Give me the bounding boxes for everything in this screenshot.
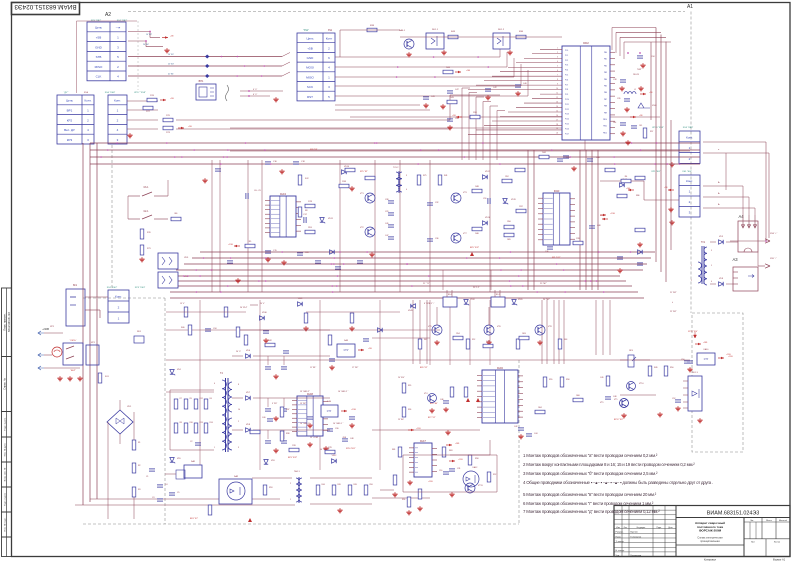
- svg-text:24 "К14": 24 "К14": [398, 377, 405, 379]
- svg-text:3: 3: [406, 175, 407, 177]
- svg-text:принципиальная: принципиальная: [700, 540, 720, 543]
- svg-text:DA6: DA6: [497, 366, 503, 370]
- svg-text:Вкл. ДУ: Вкл. ДУ: [64, 128, 75, 132]
- svg-text:ХР15 "К10": ХР15 "К10": [688, 331, 698, 333]
- svg-text:С38: С38: [385, 199, 388, 201]
- svg-text:R46: R46: [475, 233, 478, 235]
- svg-text:4 "б": 4 "б": [253, 89, 258, 91]
- svg-text:ХS2 "ХS2": ХS2 "ХS2": [107, 287, 118, 289]
- svg-text:"ВКЛ": "ВКЛ": [70, 370, 76, 372]
- svg-text:R6: R6: [625, 176, 627, 178]
- svg-text:24 "К14": 24 "К14": [240, 307, 248, 309]
- svg-text:PC2: PC2: [565, 60, 568, 62]
- svg-text:R63: R63: [522, 333, 525, 335]
- svg-text:16 "GND 2 ": 16 "GND 2 ": [338, 391, 349, 393]
- svg-text:+15В: +15В: [726, 354, 731, 356]
- svg-text:А3: А3: [732, 257, 738, 262]
- svg-text:+5В1: +5В1: [703, 342, 707, 344]
- svg-text:PB12: PB12: [603, 132, 607, 134]
- svg-text:ТА1.1: ТА1.1: [294, 470, 301, 473]
- svg-text:17: 17: [556, 119, 558, 121]
- svg-text:L1: L1: [634, 89, 636, 91]
- svg-text:21 "М2": 21 "М2": [670, 292, 677, 294]
- svg-text:R44: R44: [322, 484, 325, 486]
- svg-text:3: 3: [238, 447, 239, 449]
- svg-text:VD17: VD17: [485, 171, 491, 173]
- svg-text:R52: R52: [472, 339, 475, 341]
- svg-text:PC1: PC1: [565, 55, 568, 57]
- svg-text:R35: R35: [408, 385, 411, 387]
- svg-text:ВН1: ВН1: [199, 80, 204, 83]
- svg-text:SCK: SCK: [307, 85, 313, 89]
- svg-text:GND: GND: [95, 45, 103, 49]
- svg-text:М1: М1: [73, 283, 77, 287]
- svg-text:R61: R61: [392, 449, 395, 451]
- svg-text:С34: С34: [651, 56, 654, 58]
- svg-text:3 Монтаж проводов обозначенны: 3 Монтаж проводов обозначенных "б" вести…: [523, 471, 658, 476]
- svg-text:А2: А2: [105, 12, 111, 18]
- svg-text:RР4: RР4: [629, 350, 633, 352]
- svg-text:4 Общие проводники обозначенн: 4 Общие проводники обозначенные ▪ ‒▴‒ ▪ …: [523, 480, 713, 485]
- svg-text:17 "В2": 17 "В2": [352, 367, 359, 369]
- svg-text:ХS1 "Ш1": ХS1 "Ш1": [682, 171, 692, 173]
- svg-text:25 "М7": 25 "М7": [540, 283, 547, 285]
- svg-text:Бучнев: Бучнев: [631, 532, 639, 534]
- svg-text:26 "Б5": 26 "Б5": [168, 54, 174, 56]
- svg-text:R8: R8: [180, 422, 182, 424]
- svg-text:R8: R8: [305, 210, 307, 212]
- svg-text:+5В: +5В: [466, 70, 470, 72]
- svg-text:+5В: +5В: [96, 35, 101, 39]
- svg-text:PC14: PC14: [565, 119, 569, 121]
- svg-text:+15В: +15В: [351, 409, 356, 411]
- svg-text:PB7: PB7: [604, 99, 607, 101]
- svg-text:R13: R13: [200, 422, 203, 424]
- svg-text:С44: С44: [613, 122, 616, 124]
- svg-text:15: 15: [556, 110, 558, 112]
- svg-text:+15В: +15В: [600, 215, 605, 217]
- svg-text:R53: R53: [269, 487, 272, 489]
- svg-text:С2: С2: [190, 441, 192, 443]
- svg-text:С50: С50: [681, 359, 684, 361]
- svg-text:КР10 "В11": КР10 "В11": [346, 448, 356, 450]
- svg-text:С48: С48: [597, 225, 600, 227]
- svg-text:11: 11: [556, 92, 558, 94]
- svg-text:MOSI: MOSI: [306, 66, 314, 70]
- svg-text:R10: R10: [190, 422, 193, 424]
- svg-text:+5В: +5В: [626, 188, 630, 190]
- svg-text:ХР17 "ХS9": ХР17 "ХS9": [134, 92, 146, 94]
- svg-text:VD28: VD28: [298, 298, 303, 300]
- svg-text:R50: R50: [370, 484, 373, 486]
- svg-text:R56: R56: [402, 499, 405, 501]
- svg-text:+15В: +15В: [428, 481, 433, 483]
- svg-text:VT9: VT9: [600, 402, 603, 404]
- svg-text:DA7: DA7: [420, 439, 426, 443]
- svg-text:R47: R47: [486, 341, 489, 343]
- svg-text:VD01: VD01: [652, 105, 657, 107]
- svg-text:DA3: DA3: [280, 192, 286, 196]
- svg-text:Подп. и дата: Подп. и дата: [4, 417, 6, 431]
- svg-text:R2: R2: [138, 465, 140, 467]
- svg-text:Формат А1: Формат А1: [773, 559, 786, 562]
- svg-text:MISO: MISO: [95, 65, 103, 69]
- svg-text:28 Δ 29: 28 Δ 29: [633, 73, 639, 76]
- svg-text:1: 1: [691, 265, 692, 267]
- svg-text:Лист: Лист: [751, 542, 755, 544]
- svg-text:PC12: PC12: [565, 109, 569, 111]
- svg-text:R55: R55: [549, 379, 552, 381]
- svg-text:R36: R36: [408, 409, 411, 411]
- svg-text:R42: R42: [424, 339, 427, 341]
- svg-text:R58: R58: [475, 458, 478, 460]
- svg-text:С5: С5: [177, 492, 179, 494]
- svg-text:PB10: PB10: [603, 119, 607, 121]
- svg-text:R9: R9: [190, 398, 192, 400]
- svg-text:R75: R75: [423, 175, 426, 177]
- svg-text:R50: R50: [670, 367, 673, 369]
- svg-text:R58: R58: [566, 379, 569, 381]
- svg-text:С42: С42: [514, 426, 517, 428]
- svg-text:23 "L1": 23 "L1": [473, 287, 480, 289]
- svg-text:Цепь: Цепь: [306, 37, 314, 41]
- svg-text:10 "GND 1": 10 "GND 1": [300, 423, 310, 425]
- svg-text:"ВКЛ": "ВКЛ": [637, 69, 642, 71]
- svg-text:PB8: PB8: [604, 106, 607, 108]
- svg-text:R3: R3: [138, 489, 140, 491]
- svg-text:R86: R86: [636, 195, 639, 197]
- svg-text:ВР12 "К17": ВР12 "К17": [614, 419, 624, 421]
- svg-text:R52: R52: [505, 176, 508, 178]
- svg-text:Масса: Масса: [766, 520, 773, 522]
- svg-text:R54: R54: [456, 333, 459, 335]
- svg-text:R41: R41: [444, 175, 447, 177]
- svg-text:PC10: PC10: [565, 99, 569, 101]
- svg-text:24 "Б6": 24 "Б6": [143, 44, 149, 46]
- svg-text:R76: R76: [576, 238, 579, 240]
- svg-text:7 Монтаж проводов обозначенны: 7 Монтаж проводов обозначенных "д" вести…: [523, 509, 660, 514]
- svg-text:20: 20: [556, 133, 558, 135]
- svg-text:—▸: —▸: [116, 26, 121, 30]
- svg-text:VD20: VD20: [518, 299, 523, 301]
- svg-text:Утв.: Утв.: [616, 555, 621, 557]
- svg-text:С46: С46: [545, 251, 548, 253]
- svg-text:11 "В1": 11 "В1": [310, 367, 316, 369]
- svg-text:+15В: +15В: [728, 356, 733, 358]
- svg-text:R79: R79: [328, 447, 331, 449]
- svg-text:R97: R97: [650, 131, 653, 133]
- svg-text:Перв. примен.: Перв. примен.: [2, 313, 6, 331]
- svg-text:ТV1: ТV1: [701, 242, 706, 244]
- svg-text:Голованов: Голованов: [631, 536, 643, 538]
- svg-text:FU2: FU2: [305, 178, 309, 180]
- svg-text:VD18: VD18: [470, 299, 475, 301]
- svg-text:VD4: VD4: [177, 369, 181, 371]
- svg-text:+15В: +15В: [610, 213, 615, 215]
- svg-text:С40: С40: [262, 417, 265, 419]
- svg-text:PB3: PB3: [604, 72, 607, 74]
- svg-text:ВР6 "К2": ВР6 "К2": [420, 367, 428, 369]
- svg-text:VT5: VT5: [614, 399, 617, 401]
- svg-text:VD19: VD19: [511, 199, 516, 201]
- svg-text:10: 10: [238, 409, 240, 411]
- svg-text:Масштаб: Масштаб: [779, 520, 787, 522]
- svg-text:6: 6: [711, 281, 712, 283]
- svg-text:ХР13 "ХВ3": ХР13 "ХВ3": [652, 127, 664, 129]
- svg-text:5 Монтаж проводов обозначенны: 5 Монтаж проводов обозначенных "в" вести…: [523, 492, 657, 497]
- svg-text:Т. контр.: Т. контр.: [616, 541, 625, 543]
- svg-text:ХS6 "ХS8": ХS6 "ХS8": [105, 92, 116, 94]
- svg-text:DA10: DA10: [704, 348, 709, 351]
- svg-text:2: 2: [238, 421, 239, 423]
- svg-text:13: 13: [556, 101, 558, 103]
- svg-text:Конт: Конт: [326, 37, 333, 41]
- svg-text:13 "GND 2": 13 "GND 2": [300, 391, 310, 393]
- svg-text:R7: R7: [180, 398, 182, 400]
- svg-text:С1: С1: [146, 476, 148, 478]
- svg-text:№ докум.: № докум.: [637, 526, 646, 529]
- svg-text:25 "Б3": 25 "Б3": [168, 64, 174, 66]
- svg-text:Копировал: Копировал: [704, 559, 717, 562]
- svg-text:ВР3 "К32": ВР3 "К32": [288, 457, 297, 459]
- svg-text:PB6: PB6: [604, 92, 607, 94]
- svg-text:R37: R37: [519, 206, 522, 208]
- svg-text:PC9: PC9: [565, 94, 568, 96]
- svg-text:С30: С30: [335, 428, 338, 430]
- svg-text:R63: R63: [449, 450, 452, 452]
- svg-text:КР2: КР2: [67, 118, 73, 122]
- svg-text:СТУ: СТУ: [344, 349, 349, 352]
- svg-text:С49: С49: [600, 377, 603, 379]
- svg-text:С46: С46: [440, 399, 443, 401]
- svg-text:PC7: PC7: [565, 84, 568, 86]
- svg-text:DA6.1: DA6.1: [399, 29, 406, 32]
- svg-text:R38: R38: [286, 433, 289, 435]
- svg-text:С29: С29: [385, 211, 388, 213]
- svg-text:PC16: PC16: [565, 128, 569, 130]
- svg-text:MISO: MISO: [306, 75, 314, 79]
- svg-text:Листов: Листов: [774, 542, 780, 544]
- svg-text:С48: С48: [350, 438, 353, 440]
- svg-text:R4: R4: [210, 398, 212, 400]
- svg-text:PB11: PB11: [603, 126, 607, 128]
- svg-text:+5В: +5В: [307, 46, 312, 50]
- svg-text:КР8 "К8": КР8 "К8": [310, 149, 318, 151]
- svg-text:VT10: VT10: [639, 383, 644, 385]
- svg-text:VD30: VD30: [262, 312, 267, 314]
- svg-text:С47: С47: [385, 235, 388, 237]
- svg-text:3: 3: [711, 250, 712, 252]
- svg-text:1 Монтаж проводов обозначенны: 1 Монтаж проводов обозначенных "а" вести…: [523, 453, 658, 458]
- svg-text:PC11: PC11: [565, 104, 569, 106]
- svg-text:R76: R76: [292, 445, 295, 447]
- svg-text:VD10: VD10: [344, 166, 350, 168]
- svg-text:16: 16: [556, 115, 558, 117]
- svg-text:R45: R45: [338, 484, 341, 486]
- svg-text:R64: R64: [538, 407, 541, 409]
- svg-text:ВИАМ.683151.024Э3: ВИАМ.683151.024Э3: [707, 511, 759, 517]
- svg-text:ФОРСАЖ-200М: ФОРСАЖ-200М: [699, 529, 722, 533]
- svg-text:PB9: PB9: [604, 112, 607, 114]
- svg-text:PC5: PC5: [565, 75, 568, 77]
- svg-text:R52: R52: [493, 474, 496, 476]
- svg-text:CLK: CLK: [96, 75, 102, 79]
- svg-text:R1: R1: [138, 442, 140, 444]
- svg-text:С41: С41: [639, 125, 642, 127]
- svg-text:15 "+15В": 15 "+15В": [310, 437, 319, 439]
- svg-text:ВИАМ.683151.024: ВИАМ.683151.024: [8, 311, 11, 332]
- svg-text:Конт.: Конт.: [114, 99, 121, 103]
- svg-text:С31: С31: [457, 468, 460, 470]
- svg-text:VD12: VD12: [332, 455, 337, 457]
- svg-text:Конт.: Конт.: [85, 99, 92, 103]
- svg-text:PC17: PC17: [565, 133, 569, 135]
- svg-text:С4: С4: [165, 484, 167, 486]
- svg-text:Лист: Лист: [624, 527, 628, 529]
- svg-text:18: 18: [556, 124, 558, 126]
- svg-text:Инв. № дубл.: Инв. № дубл.: [3, 442, 6, 456]
- svg-text:б: б: [672, 302, 673, 304]
- svg-text:+15В: +15В: [228, 244, 233, 246]
- svg-text:PC13: PC13: [565, 114, 569, 116]
- svg-text:GND: GND: [307, 56, 315, 60]
- svg-text:22 "М2": 22 "М2": [670, 311, 677, 313]
- svg-text:10: 10: [556, 88, 558, 90]
- svg-text:9 "В1": 9 "В1": [272, 403, 278, 405]
- svg-text:PC3: PC3: [565, 65, 568, 67]
- svg-text:14 "GND 1 ": 14 "GND 1 ": [333, 423, 344, 425]
- svg-text:6 "ОРВ 3 "-": 6 "ОРВ 3 "-": [424, 303, 435, 305]
- svg-text:Колпачков: Колпачков: [631, 555, 642, 557]
- svg-text:PC6: PC6: [565, 79, 568, 81]
- svg-text:R49: R49: [354, 484, 357, 486]
- svg-text:Подп.: Подп.: [656, 527, 661, 529]
- svg-text:Подп. и дата: Подп. и дата: [4, 492, 6, 506]
- svg-text:DD2: DD2: [583, 41, 589, 45]
- svg-text:PB4: PB4: [604, 79, 607, 81]
- svg-text:С38: С38: [613, 79, 616, 81]
- svg-text:R14: R14: [210, 422, 213, 424]
- svg-text:СТУ: СТУ: [327, 411, 332, 413]
- svg-text:К2-1: К2-1: [144, 210, 150, 213]
- svg-text:ВР9 "К32": ВР9 "К32": [470, 247, 479, 249]
- svg-text:DD1.3: DD1.3: [692, 372, 697, 374]
- svg-text:DD1.1: DD1.1: [432, 29, 439, 31]
- svg-text:"СЕТЬ": "СЕТЬ": [70, 340, 77, 342]
- svg-text:R12: R12: [200, 398, 203, 400]
- svg-text:С52: С52: [672, 398, 675, 400]
- svg-text:20 "б": 20 "б": [260, 303, 265, 305]
- svg-text:21 "Т1": 21 "Т1": [423, 283, 430, 285]
- svg-text:PB2: PB2: [604, 65, 607, 67]
- svg-text:Цепь: Цепь: [95, 26, 103, 30]
- svg-text:PC4: PC4: [565, 70, 568, 72]
- svg-text:ВР1: ВР1: [67, 108, 73, 112]
- svg-text:ХS3 "ХВ3": ХS3 "ХВ3": [683, 127, 694, 129]
- svg-text:6: 6: [214, 383, 215, 385]
- svg-text:Пров.: Пров.: [616, 536, 622, 538]
- svg-text:PC15: PC15: [565, 124, 569, 126]
- svg-text:С3: С3: [152, 497, 154, 499]
- svg-text:2: 2: [691, 280, 692, 282]
- svg-text:R44: R44: [542, 152, 545, 154]
- svg-text:А4: А4: [738, 214, 744, 219]
- svg-text:+15В: +15В: [458, 459, 463, 461]
- svg-text:R48: R48: [475, 186, 478, 188]
- svg-text:Взам. инв. №: Взам. инв. №: [3, 467, 6, 481]
- svg-text:23 "В6": 23 "В6": [398, 419, 404, 421]
- svg-text:СТУ: СТУ: [704, 359, 709, 361]
- svg-text:R37: R37: [286, 409, 289, 411]
- svg-text:С48: С48: [613, 396, 616, 398]
- svg-text:"ХS1": "ХS1": [303, 30, 309, 32]
- svg-text:VD9: VD9: [271, 460, 275, 462]
- svg-text:6 Монтаж проводов обозначенны: 6 Монтаж проводов обозначенных "г" вести…: [523, 501, 654, 506]
- svg-text:КР3: КР3: [67, 138, 73, 142]
- svg-text:С59: С59: [483, 198, 486, 200]
- svg-text:2: 2: [290, 483, 291, 485]
- svg-text:Разраб.: Разраб.: [616, 532, 624, 534]
- svg-text:2 Монтаж вокруг контактными п: 2 Монтаж вокруг контактными площадками 8…: [523, 462, 695, 467]
- svg-text:+15В: +15В: [416, 428, 421, 430]
- svg-text:19 "б": 19 "б": [180, 303, 185, 305]
- svg-text:STB: STB: [96, 55, 102, 59]
- svg-text:С32: С32: [435, 202, 438, 204]
- svg-text:+5В1: +5В1: [455, 443, 459, 445]
- svg-text:Конт.: Конт.: [686, 135, 693, 139]
- svg-text:41 "В1": 41 "В1": [168, 74, 174, 76]
- svg-text:R49: R49: [654, 367, 657, 369]
- svg-text:ХS5 "-": ХS5 "-": [770, 258, 777, 260]
- svg-text:24 "М2": 24 "М2": [543, 299, 550, 301]
- svg-text:ХS4 "+": ХS4 "+": [770, 233, 777, 235]
- svg-text:DA12: DA12: [473, 466, 478, 469]
- svg-text:PC8: PC8: [565, 89, 568, 91]
- svg-text:12: 12: [556, 97, 558, 99]
- svg-text:С44: С44: [534, 433, 537, 435]
- svg-text:Лит.: Лит.: [750, 520, 754, 522]
- svg-text:"ДУ": "ДУ": [64, 92, 69, 94]
- svg-text:ХS1: ХS1: [328, 30, 333, 32]
- svg-text:DD1.2: DD1.2: [498, 29, 505, 31]
- svg-text:С34: С34: [213, 328, 216, 330]
- svg-text:PC0: PC0: [565, 50, 568, 52]
- svg-text:R42: R42: [268, 340, 271, 342]
- svg-text:R40: R40: [181, 327, 184, 329]
- svg-text:4: 4: [406, 189, 407, 191]
- svg-text:КР5 "К2": КР5 "К2": [360, 171, 368, 173]
- svg-text:Н. контр.: Н. контр.: [616, 550, 625, 552]
- svg-text:RST: RST: [307, 95, 313, 99]
- svg-text:R56: R56: [507, 221, 510, 223]
- svg-text:С36: С36: [435, 238, 438, 240]
- svg-text:Инв. № подл.: Инв. № подл.: [3, 517, 6, 531]
- svg-text:С50: С50: [439, 470, 442, 472]
- svg-text:ВР4 "К2": ВР4 "К2": [190, 518, 198, 520]
- svg-text:ВР6 "В4": ВР6 "В4": [430, 403, 438, 405]
- svg-text:ВИАМ.683151.024Э3: ВИАМ.683151.024Э3: [14, 3, 77, 10]
- svg-text:С39: С39: [617, 98, 620, 100]
- svg-text:1: 1: [214, 447, 215, 449]
- svg-text:~220В: ~220В: [42, 328, 49, 331]
- svg-text:С49: С49: [385, 223, 388, 225]
- svg-text:R66: R66: [576, 395, 579, 397]
- svg-text:А1: А1: [687, 4, 693, 10]
- svg-text:С6...С9: С6...С9: [254, 190, 262, 192]
- svg-text:1: 1: [290, 499, 291, 501]
- svg-text:D40: D40: [554, 189, 560, 193]
- svg-text:VD16: VD16: [485, 217, 491, 219]
